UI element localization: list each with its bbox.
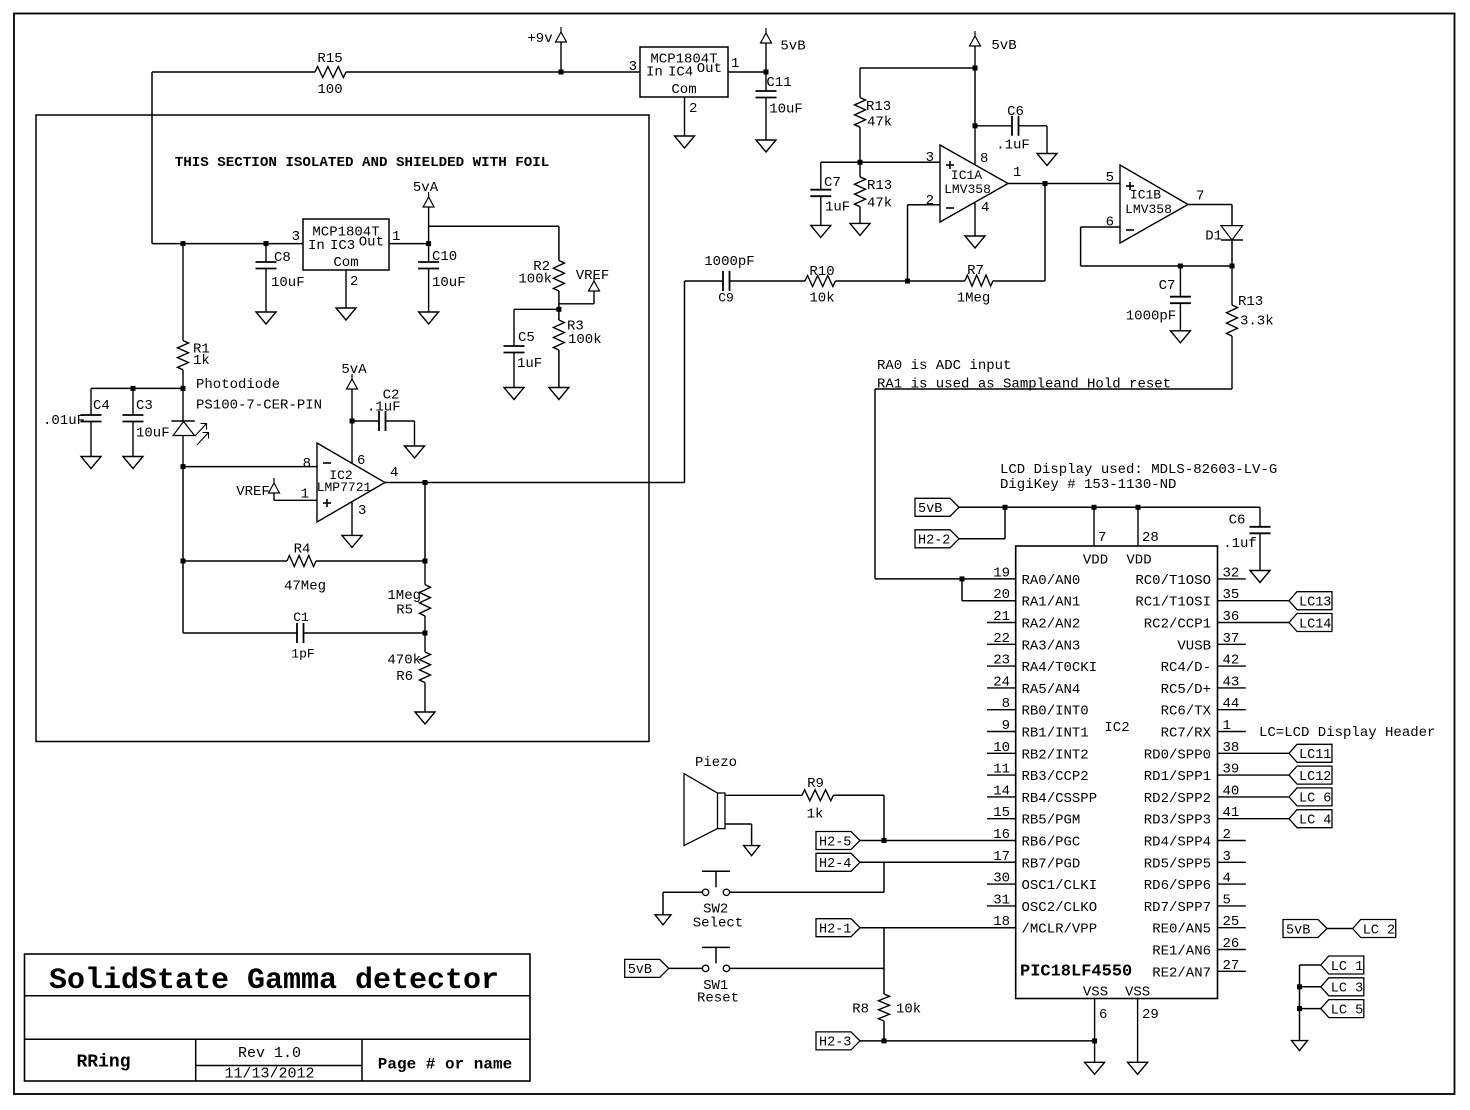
wire [1231,240,1233,266]
pin 44 RC6/TX [1161,696,1240,720]
note: shield text [175,155,550,171]
wire [183,560,287,562]
junction [1043,181,1048,186]
svg-text:LC14: LC14 [1299,617,1331,632]
wire [91,387,183,389]
wire [1218,927,1246,929]
ground [965,236,985,248]
ground [549,388,569,400]
power VREF [559,268,609,304]
wire [860,927,1016,929]
svg-text:RD0/SPP0: RD0/SPP0 [1144,747,1211,763]
pin 5 RD7/SPP7 [1144,892,1231,916]
svg-text:SolidState Gamma detector: SolidState Gamma detector [49,964,499,998]
pin 20 RA1/AN1 [993,587,1080,611]
svg-text:5: 5 [1106,170,1114,186]
pin 36 RC2/CCP1 [1144,609,1240,633]
label VSS [1083,985,1108,1001]
wire [1218,970,1246,972]
svg-text:R10: R10 [809,264,834,280]
wire [962,579,1016,601]
wire [987,905,1016,907]
resistor R10 [805,264,835,307]
svg-text:1Meg: 1Meg [957,291,991,307]
capacitor C4 [43,388,110,456]
pin 23 RA4/T0CKI [993,653,1097,677]
wire [908,280,966,282]
pin 1 label [731,56,739,72]
svg-text:Out: Out [697,61,722,77]
svg-text:1k: 1k [193,353,210,369]
title text [49,964,499,998]
wire [558,291,560,320]
wire [987,622,1016,624]
pin 17 RB7/PGD [993,849,1080,873]
wire [987,643,1016,645]
svg-text:LCD Display used: MDLS-82603-L: LCD Display used: MDLS-82603-LV-G [1000,462,1277,478]
title block [25,954,531,1081]
power VREF [236,478,317,500]
wire [883,928,885,994]
ground [256,312,276,324]
svg-text:RRing: RRing [76,1052,130,1072]
wire [860,861,1016,863]
resistor R6 [387,633,430,712]
svg-text:H2-4: H2-4 [819,857,851,872]
flag LC12 [1289,766,1332,785]
svg-text:RD6/SPP6: RD6/SPP6 [1144,878,1211,894]
label page [378,1055,512,1073]
capacitor C3 [123,388,170,456]
svg-text:.1uF: .1uF [367,399,401,415]
svg-text:RD3/SPP3: RD3/SPP3 [1144,813,1211,829]
svg-text:RB7/PGD: RB7/PGD [1022,856,1081,872]
wire [987,796,1016,798]
svg-text:RC0/T1OSO: RC0/T1OSO [1135,573,1211,589]
ground [405,446,425,458]
junction [181,386,186,391]
svg-text:RC7/RX: RC7/RX [1161,725,1212,741]
junction [1136,505,1141,510]
resistor R8 [852,994,921,1021]
svg-text:RD7/SPP7: RD7/SPP7 [1144,900,1211,916]
svg-text:11/13/2012: 11/13/2012 [224,1065,314,1082]
wire [987,709,1016,711]
svg-text:LC11: LC11 [1299,748,1331,763]
svg-text:R6: R6 [396,669,413,685]
wire [860,840,1016,842]
flag LC 6 [1289,788,1332,807]
svg-text:OSC2/CLKO: OSC2/CLKO [1022,900,1098,916]
junction [973,66,978,71]
junction [1003,505,1008,510]
pin 18 /MCLR/VPP [993,914,1097,938]
junction [1297,984,1302,989]
svg-text:470k: 470k [387,653,421,669]
wire [821,161,940,163]
svg-text:8: 8 [303,456,311,472]
svg-text:IC4: IC4 [668,64,693,80]
wire [875,578,1016,580]
wire [561,71,640,73]
wire [152,71,315,73]
svg-text:RD1/SPP1: RD1/SPP1 [1144,769,1211,785]
pin 42 RC4/D- [1161,653,1240,677]
pin 2 RD4/SPP4 [1144,827,1231,851]
svg-text:RA1 is used as Sampleand Hold: RA1 is used as Sampleand Hold reset [877,376,1171,392]
svg-text:RC6/TX: RC6/TX [1161,704,1212,720]
svg-text:OSC1/CLKI: OSC1/CLKI [1022,878,1098,894]
svg-text:5vB: 5vB [1286,923,1310,938]
svg-text:LC 6: LC 6 [1299,792,1331,807]
junction [423,559,428,564]
svg-text:2: 2 [926,193,934,209]
flag LC11 [1289,744,1332,763]
wire [908,205,941,281]
label VDD [1083,552,1108,568]
wire [183,466,317,468]
wire [663,892,703,915]
svg-text:4: 4 [390,465,398,481]
wire IC3 pin2 [346,270,358,308]
pin 1 label [1013,165,1021,181]
svg-text:PIC18LF4550: PIC18LF4550 [1020,963,1132,982]
svg-text:RE0/AN5: RE0/AN5 [1152,922,1211,938]
svg-text:PS100-7-CER-PIN: PS100-7-CER-PIN [196,397,322,413]
resistor R13 [855,68,893,162]
svg-text:C7: C7 [824,175,841,191]
wire VSS pin6 [1095,999,1108,1063]
wire [304,632,426,634]
resistor R13 [855,162,893,223]
wire [987,883,1016,885]
label VDD [1126,552,1151,568]
label Rev [238,1045,301,1062]
svg-text:RB0/INT0: RB0/INT0 [1022,704,1089,720]
pin 11 RB3/CCP2 [993,762,1089,786]
ground [504,388,524,400]
switch SW1 Reset [697,947,739,1006]
flag LC14 [1289,614,1332,633]
wire [729,891,884,893]
wire [183,632,297,634]
wire pin28 VDD [1138,507,1159,546]
wire [974,68,976,126]
svg-text:LMV358: LMV358 [1125,202,1172,217]
wire [424,483,426,562]
pin 5 label [1106,170,1114,186]
junction [264,241,269,246]
wire [182,561,184,633]
svg-text:28: 28 [1142,530,1159,546]
capacitor C9 [704,254,754,306]
resistor R13 [1227,266,1274,389]
svg-text:IC3: IC3 [330,238,355,254]
wire [860,1040,1095,1042]
svg-text:R5: R5 [396,602,413,618]
pin 19 RA0/AN0 [993,565,1080,589]
flag H2-3 [816,1032,860,1051]
junction [131,386,136,391]
svg-text:In: In [646,64,663,80]
svg-text:100k: 100k [518,272,552,288]
svg-text:1: 1 [392,229,400,245]
pin 7 label [1196,188,1204,204]
svg-text:7: 7 [1098,530,1106,546]
svg-text:LC 4: LC 4 [1299,813,1331,828]
svg-text:LC 2: LC 2 [1363,923,1395,938]
wire [1326,928,1353,930]
svg-text:R13: R13 [1238,294,1263,310]
svg-text:20: 20 [993,587,1010,603]
svg-text:C11: C11 [766,75,791,91]
junction [1092,505,1097,510]
wire pin7 VDD [1094,507,1106,546]
wire [1218,796,1290,798]
diode D1 [1205,226,1243,245]
svg-text:R13: R13 [867,178,892,194]
pin 31 OSC2/CLKO [993,892,1097,916]
junction [181,559,186,564]
svg-text:3: 3 [292,229,300,245]
svg-text:5vB: 5vB [780,38,805,54]
pin 27 RE2/AN7 [1152,958,1239,982]
wire [987,731,1016,733]
svg-text:VSS: VSS [1083,985,1108,1001]
svg-text:C6: C6 [1229,512,1246,528]
svg-text:1pF: 1pF [291,646,314,661]
svg-text:RA0/AN0: RA0/AN0 [1022,573,1081,589]
svg-text:3: 3 [358,503,366,519]
svg-text:.1uf: .1uf [1223,536,1257,552]
svg-text:29: 29 [1142,1007,1159,1023]
svg-text:+9v: +9v [527,31,552,47]
op-amp IC2 LMP7721 [317,443,385,522]
op-amp IC1A LMV358 [940,145,1008,222]
pin 3 label [926,150,934,166]
svg-text:10uF: 10uF [432,275,466,291]
flag LC 4 [1289,810,1332,829]
power 5vA [341,362,367,421]
svg-text:100: 100 [317,82,342,98]
svg-text:RA1/AN1: RA1/AN1 [1022,595,1081,611]
junction [882,838,887,843]
power 5vB [970,31,1017,68]
wire IC4 pin2 [685,97,698,136]
svg-text:RB6/PGC: RB6/PGC [1022,834,1081,850]
photodiode D (PS100) [171,388,208,466]
junction [556,307,561,312]
wire [959,507,1005,539]
pin 6 label [1106,214,1114,230]
ground [744,846,760,856]
svg-text:100k: 100k [568,332,602,348]
pin 3 label [629,59,637,75]
svg-text:RA0 is ADC input: RA0 is ADC input [877,358,1011,374]
wire [1218,687,1246,689]
svg-text:IC2: IC2 [1104,720,1129,736]
junction [559,70,564,75]
svg-text:LC=LCD Display Header: LC=LCD Display Header [1259,725,1435,741]
wire [346,71,561,73]
flag LC 5 [1321,1000,1364,1019]
svg-text:RB5/PGM: RB5/PGM [1022,813,1081,829]
svg-text:RC2/CCP1: RC2/CCP1 [1144,616,1211,632]
power 5vA [413,180,439,244]
svg-text:Com: Com [671,82,696,98]
junction [764,70,769,75]
svg-text:.1uF: .1uF [996,138,1030,154]
pin 3 label [292,229,300,245]
svg-text:RB1/INT1: RB1/INT1 [1022,725,1089,741]
svg-text:1uF: 1uF [517,356,542,372]
svg-text:VSS: VSS [1125,985,1150,1001]
flag LC 1 [1321,956,1364,975]
svg-text:H2-2: H2-2 [918,534,950,549]
ground [756,140,776,152]
junction [1297,1006,1302,1011]
pin 1 label [301,486,309,502]
pin 8 RB0/INT0 [1002,696,1089,720]
svg-text:5vA: 5vA [341,362,367,378]
resistor R9 [802,776,833,822]
flag H2-5 [816,832,860,851]
svg-text:H2-1: H2-1 [819,922,851,937]
flag LC13 [1289,592,1332,611]
resistor R2 [518,259,564,291]
wire [1218,622,1290,624]
power +9v [527,27,566,72]
svg-text:RA5/AN4: RA5/AN4 [1022,682,1081,698]
junction [882,1038,887,1043]
wire [1218,774,1290,776]
wire [883,1021,885,1041]
wire [1218,949,1246,951]
svg-text:C8: C8 [274,250,291,266]
junction [1230,264,1235,269]
svg-text:RC5/D+: RC5/D+ [1161,682,1211,698]
svg-text:C9: C9 [718,291,734,306]
svg-text:5vB: 5vB [628,963,652,978]
pin 1 RC7/RX [1161,718,1231,742]
svg-text:LC 1: LC 1 [1331,960,1363,975]
capacitor C5 [504,309,559,387]
wire [385,482,685,484]
pin 10 RB2/INT2 [993,740,1089,764]
svg-text:C1: C1 [293,610,309,625]
flag H2-1 [816,919,860,938]
svg-text:VREF: VREF [576,268,610,284]
switch SW2 Select [693,871,743,931]
svg-text:H2-5: H2-5 [819,835,851,850]
pin 21 RA2/AN2 [993,609,1080,633]
pin 22 RA3/AN3 [993,631,1080,655]
wire [728,71,766,73]
ground [811,225,831,237]
svg-text:R8: R8 [852,1002,869,1018]
svg-text:RD2/SPP2: RD2/SPP2 [1144,791,1211,807]
svg-text:19: 19 [993,565,1010,581]
speaker Piezo [684,755,802,846]
ground [81,457,101,469]
svg-text:1000pF: 1000pF [1126,308,1176,324]
wire [860,67,975,69]
svg-text:47Meg: 47Meg [284,579,326,595]
flag H2-2 [915,530,959,549]
svg-text:Rev 1.0: Rev 1.0 [238,1045,301,1062]
svg-text:C4: C4 [93,398,110,414]
ground [1037,154,1057,166]
svg-text:THIS SECTION ISOLATED AND SHIE: THIS SECTION ISOLATED AND SHIELDED WITH … [175,155,550,171]
wire [1008,183,1120,185]
junction [858,160,863,165]
wire [316,560,425,562]
svg-text:H2-3: H2-3 [819,1036,851,1051]
wire [1218,818,1290,820]
svg-text:R4: R4 [294,542,311,558]
junction [905,279,910,284]
junction [181,464,186,469]
ground [1085,1062,1105,1074]
svg-text:In: In [308,238,325,254]
svg-text:10k: 10k [809,291,834,307]
wire IC2 pin6 [352,421,365,469]
svg-text:DigiKey # 153-1130-ND: DigiKey # 153-1130-ND [1000,477,1176,493]
wire [1218,578,1246,580]
svg-text:R7: R7 [967,263,984,279]
wire [883,862,885,892]
svg-text:10uF: 10uF [769,101,803,117]
capacitor C8 [256,244,305,312]
wire [558,350,560,388]
wire [1218,861,1246,863]
svg-text:3: 3 [926,150,934,166]
ground [1170,331,1190,343]
svg-text:IC1B: IC1B [1130,188,1161,203]
wire IC1A pin4 [975,200,989,236]
IC2 PIC18LF4550 body [1016,546,1218,999]
wire [1218,905,1246,907]
svg-text:VUSB: VUSB [1177,638,1211,654]
wire [729,967,884,969]
wire [1218,883,1246,885]
wire [1218,840,1246,842]
label Photodiode [196,377,322,414]
svg-text:Page # or name: Page # or name [378,1055,512,1073]
ground [675,136,695,148]
svg-text:5vB: 5vB [918,502,942,517]
svg-text:Piezo: Piezo [695,755,737,771]
pin 37 VUSB [1177,631,1239,655]
pin 3 RD5/SPP5 [1144,849,1231,873]
junction [426,241,431,246]
svg-text:1uF: 1uF [825,200,850,216]
wire [1081,227,1120,266]
pin 39 RD1/SPP1 [1144,762,1240,786]
svg-text:10uF: 10uF [136,426,170,442]
wire [1218,643,1246,645]
svg-text:1: 1 [301,486,309,502]
wire [993,184,1045,282]
svg-text:LC 5: LC 5 [1331,1003,1363,1018]
svg-text:5vA: 5vA [413,180,439,196]
wire [152,243,303,245]
svg-text:3.3k: 3.3k [1240,313,1274,329]
pin 26 RE1/AN6 [1152,936,1239,960]
wire [1081,265,1232,267]
svg-text:RC4/D-: RC4/D- [1161,660,1211,676]
capacitor C11 [756,72,803,140]
